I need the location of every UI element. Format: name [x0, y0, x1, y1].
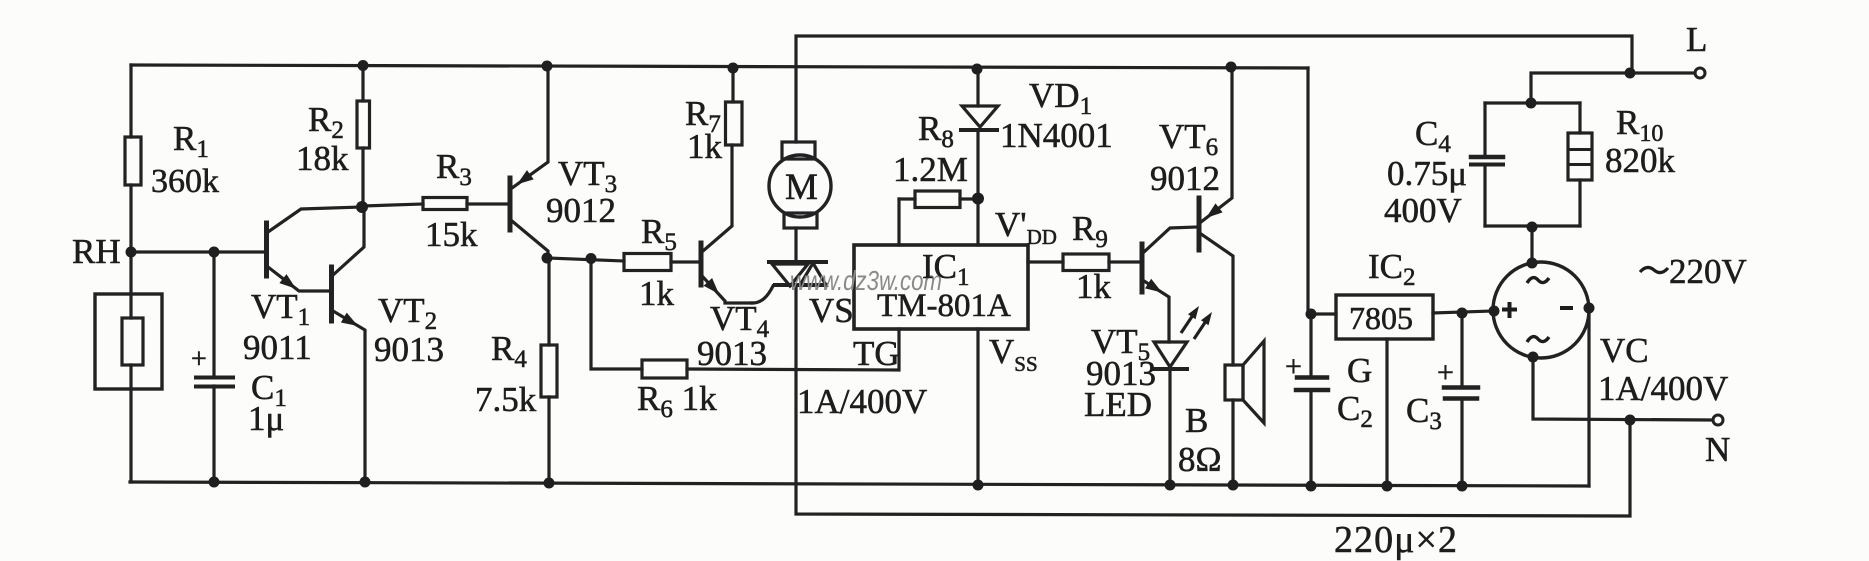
svg-text:+: + — [1285, 350, 1302, 383]
svg-text:9013: 9013 — [374, 330, 444, 369]
svg-text:220μ×2: 220μ×2 — [1334, 519, 1457, 561]
transistor VT4 base bar — [699, 243, 704, 285]
junction ground VSS — [973, 480, 984, 491]
svg-text:+: + — [191, 344, 207, 375]
wire L line — [1531, 73, 1695, 103]
junction ground C2 — [1306, 481, 1317, 492]
wire R1 bottom lead to RH node — [129, 185, 132, 252]
capacitor C4 plates — [1471, 155, 1503, 160]
junction L node — [1625, 68, 1636, 79]
svg-text:7.5k: 7.5k — [475, 380, 537, 419]
junction VT1 collector node — [356, 201, 368, 213]
svg-text:+: + — [1437, 356, 1454, 389]
transistor VT3 emitter — [512, 66, 548, 188]
junction ground LED — [1165, 480, 1176, 491]
svg-text:1A/400V: 1A/400V — [797, 382, 927, 421]
humidity sensor RH inner resistor — [122, 318, 143, 365]
junction ground C1 — [209, 477, 220, 488]
svg-text:1N4001: 1N4001 — [1000, 116, 1113, 155]
wire C4R10 bottom bar — [1485, 224, 1580, 227]
junction top rail VD1 — [972, 64, 983, 75]
capacitor C1 leads — [212, 252, 215, 376]
wire RH base line — [131, 250, 264, 253]
wire R5 to VT4 base — [671, 260, 699, 263]
capacitor C2 plates — [1297, 375, 1327, 380]
svg-text:1k: 1k — [1076, 267, 1112, 306]
transistor VT1 collector — [268, 207, 362, 232]
LED flash arrow 2 — [1194, 321, 1206, 339]
svg-text:400V: 400V — [1384, 191, 1462, 230]
svg-text:N: N — [1705, 430, 1730, 469]
svg-text:M: M — [785, 167, 818, 208]
svg-text:RH: RH — [72, 232, 121, 271]
resistor R9 — [1063, 254, 1109, 271]
junction top rail R2 — [358, 60, 369, 71]
wire R8 left lead — [899, 197, 915, 200]
capacitor C2 leads — [1309, 314, 1312, 376]
svg-text:1μ: 1μ — [248, 399, 284, 438]
wire C4R10 node to bridge top — [1530, 226, 1533, 262]
svg-text:9012: 9012 — [546, 191, 616, 230]
svg-text:TG: TG — [853, 334, 900, 373]
svg-text:L: L — [1686, 20, 1707, 59]
junction N node — [1625, 415, 1636, 426]
wire R6 branch down — [591, 259, 642, 369]
transistor VT6 collector — [1201, 234, 1233, 365]
transistor VT3 collector — [512, 221, 548, 258]
wire node to R3 — [363, 204, 423, 206]
capacitor C3 leads — [1460, 313, 1463, 386]
junction top rail VT3 — [542, 61, 553, 72]
svg-text:0.75μ: 0.75μ — [1387, 154, 1467, 193]
motor M bottom brush — [784, 213, 817, 228]
bridge rectifier VC circle — [1493, 262, 1589, 358]
speaker B horn — [1243, 341, 1264, 423]
wire R9 to VT5 base — [1109, 260, 1140, 263]
wire LED to ground rail — [1168, 369, 1171, 485]
wire R6 to TG — [687, 329, 899, 370]
transistor VT2 base bar — [329, 267, 334, 321]
wire VT3 collector node run — [547, 258, 624, 261]
arrow VT5 emitter — [1145, 279, 1162, 293]
wire R4 bottom lead — [547, 397, 550, 483]
svg-text:R6 1k: R6 1k — [637, 379, 717, 423]
terminal L circle — [1695, 68, 1705, 78]
wire speaker to ground rail — [1231, 400, 1234, 485]
svg-text:15k: 15k — [425, 215, 478, 254]
transistor VT5 base bar — [1140, 244, 1145, 292]
wire IC1 output pin to R9 — [1028, 260, 1063, 263]
svg-text:B: B — [1185, 401, 1208, 440]
transistor VT4 emitter — [703, 277, 752, 303]
arrow VT3 emitter (PNP into base) — [517, 170, 534, 184]
transistor VT4 collector — [703, 145, 732, 251]
capacitor C3 plates — [1444, 385, 1478, 390]
resistor R4 — [541, 345, 557, 397]
bridge plus — [1502, 302, 1517, 318]
junction R8 VDD node — [972, 193, 984, 205]
svg-text:1A/400V: 1A/400V — [1598, 369, 1728, 408]
svg-text:TM-801A: TM-801A — [877, 288, 1011, 324]
wire R3 to VT3 base — [467, 202, 508, 205]
svg-text:8Ω: 8Ω — [1178, 440, 1222, 479]
arrow VT6 emitter (PNP into base) — [1206, 203, 1223, 218]
motor M top brush — [782, 142, 815, 159]
svg-text:LED: LED — [1084, 385, 1152, 424]
triac VS right triangle — [800, 263, 826, 285]
junction top rail VT6 — [1226, 62, 1237, 73]
resistor R4 top lead — [547, 258, 550, 345]
svg-text:1k: 1k — [687, 127, 723, 166]
junction C4R10 bottom node — [1527, 222, 1538, 233]
wire motor to triac — [794, 228, 797, 262]
svg-text:G: G — [1347, 351, 1372, 390]
wire N line from bridge — [1533, 357, 1712, 420]
svg-text:7805: 7805 — [1349, 300, 1413, 336]
junction IC2 output node — [1457, 308, 1468, 319]
junction C4R10 top node — [1526, 98, 1537, 109]
wire IC1 VSS pin — [976, 329, 979, 485]
junction bridge right terminal — [1584, 303, 1595, 314]
transistor VT6 emitter — [1201, 67, 1232, 222]
motor M top wire and mains top line — [796, 36, 1632, 142]
bridge tilde bottom — [1527, 337, 1549, 342]
transistor VT1 emitter — [268, 267, 331, 291]
wire IC2 G pin — [1385, 339, 1388, 486]
svg-text:9012: 9012 — [1150, 159, 1220, 198]
wire R7 top lead — [731, 68, 734, 102]
transistor VT2 collector — [333, 208, 364, 275]
LED triangle — [1154, 342, 1187, 367]
junction bridge top terminal — [1527, 258, 1538, 269]
junction C1 top — [209, 247, 220, 258]
wire R2 bottom lead — [361, 148, 364, 207]
transistor VT2 emitter — [333, 311, 365, 482]
junction ground G — [1382, 481, 1393, 492]
triac VS top bar — [769, 260, 826, 264]
IC2 7805 box — [1336, 295, 1433, 339]
resistor R7 — [726, 102, 743, 145]
resistor R5 — [624, 254, 671, 271]
svg-text:1.2M: 1.2M — [893, 150, 968, 189]
wire bridge right terminal down to rail end — [1587, 308, 1590, 486]
junction ground C3 — [1457, 481, 1468, 492]
resistor R2 top lead — [361, 65, 364, 101]
resistor R10 leads — [1578, 103, 1581, 133]
transistor VT3 base bar — [508, 178, 513, 230]
speaker B rect — [1225, 365, 1243, 400]
junction VT3 collector node — [542, 253, 553, 264]
humidity sensor RH outer box — [95, 294, 162, 389]
triac VS left triangle — [772, 264, 808, 286]
junction bridge bottom terminal — [1528, 352, 1539, 363]
junction RH node — [126, 247, 137, 258]
motor M circle — [769, 155, 831, 217]
svg-text:1k: 1k — [639, 274, 675, 313]
resistor R3 — [423, 198, 467, 210]
svg-text:9013: 9013 — [697, 334, 767, 373]
bridge tilde top — [1527, 278, 1549, 283]
transistor VT6 base bar — [1197, 198, 1202, 250]
diode VD1 cathode bar — [961, 128, 997, 132]
diode VD1 top lead — [976, 69, 979, 106]
transistor VT5 collector — [1144, 227, 1197, 252]
svg-text:9011: 9011 — [243, 328, 312, 367]
triac VS gate curve — [752, 286, 773, 303]
transistor VT1 base bar — [264, 223, 269, 276]
terminal N circle — [1713, 415, 1723, 425]
junction ground R4 — [544, 478, 555, 489]
wire IC2 output to bridge — [1433, 311, 1493, 313]
LED flash arrow 1 — [1181, 315, 1193, 333]
arrow VT4 emitter — [704, 278, 719, 294]
wire top DC rail — [131, 65, 1308, 68]
wire RH node to sensor — [129, 252, 132, 318]
diode VD1 triangle — [962, 106, 998, 127]
transistor VT5 emitter — [1144, 281, 1169, 342]
wire left column top (R1 top lead) — [129, 65, 132, 137]
capacitor C4 and resistor R10 top bar — [1485, 101, 1580, 104]
svg-text:820k: 820k — [1605, 141, 1676, 180]
wire triac to lower mains line — [796, 285, 1630, 516]
svg-text:VS: VS — [809, 291, 854, 330]
junction ground VT2 — [360, 477, 371, 488]
svg-text:220V: 220V — [1669, 252, 1747, 291]
wire bottom DC rail — [130, 482, 1589, 486]
label ~220V — [1640, 267, 1668, 272]
LED cathode bar — [1153, 367, 1187, 371]
wire sensor bottom to ground rail — [129, 365, 132, 482]
svg-text:360k: 360k — [151, 163, 219, 200]
resistor R8 — [915, 191, 960, 208]
wire rail corner to IC2 input — [1308, 68, 1336, 314]
triac VS bottom bar — [775, 283, 826, 287]
resistor R2 — [357, 101, 370, 148]
capacitor C1 plates — [196, 376, 233, 380]
junction bridge left terminal — [1489, 306, 1500, 317]
junction ground speaker — [1228, 480, 1239, 491]
resistor R6 — [642, 360, 687, 378]
resistor R10 — [1568, 133, 1592, 180]
svg-text:VC: VC — [1600, 331, 1649, 370]
arrow VT2 emitter — [341, 313, 358, 326]
wire R8 right lead — [960, 197, 978, 200]
svg-text:18k: 18k — [296, 139, 349, 178]
wire VD1 to IC1 VDD pin — [976, 130, 979, 245]
capacitor C4 leads — [1483, 103, 1486, 155]
arrow VT1 emitter — [279, 274, 296, 289]
junction IC2 input node — [1306, 309, 1317, 320]
IC U1 TM-801A box — [854, 245, 1028, 329]
resistor R1 — [125, 137, 141, 185]
bridge minus — [1560, 306, 1573, 310]
junction R5 R6 node — [586, 253, 597, 264]
junction top rail R7 — [728, 63, 739, 74]
